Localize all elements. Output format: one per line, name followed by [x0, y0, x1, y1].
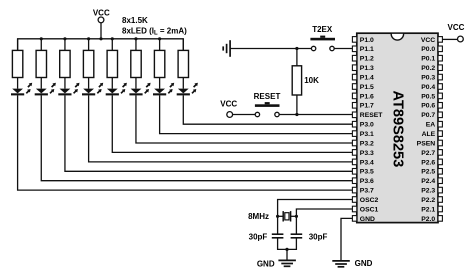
resistor R2 1.5K	[36, 50, 46, 77]
svg-text:PSEN: PSEN	[417, 140, 436, 147]
resistor R7 1.5K	[154, 50, 164, 77]
svg-text:OSC1: OSC1	[360, 206, 379, 213]
wire rail stub column 5	[111, 39, 113, 51]
pin 25 P2.4 (right)	[421, 178, 442, 185]
wire R8 to LED8	[182, 78, 184, 89]
switch S1 T2EX	[310, 25, 335, 51]
wire T2EX switch to pin P1.1	[334, 48, 352, 50]
svg-text:P3.6: P3.6	[360, 178, 374, 185]
svg-text:P0.6: P0.6	[421, 103, 435, 110]
switch S2 RESET	[254, 92, 281, 117]
svg-text:P3.7: P3.7	[360, 188, 374, 195]
LED D6	[129, 83, 150, 96]
capacitor C1 30pF	[249, 232, 284, 241]
svg-text:OSC2: OSC2	[360, 197, 379, 204]
crystal X1 8MHz	[248, 211, 296, 221]
svg-text:P2.1: P2.1	[421, 206, 435, 213]
wire LED3 to P3.5	[65, 95, 353, 171]
pin 2 P1.1 (left)	[352, 46, 374, 53]
power VCC (reset)	[220, 100, 237, 118]
wire rail stub column 2	[40, 39, 42, 51]
pin 38 P0.1 (right)	[421, 55, 442, 62]
wire VCC to rail	[100, 23, 102, 39]
ground (oscillator)	[257, 259, 296, 268]
pin 9 RESET (left)	[352, 112, 383, 119]
svg-text:P1.1: P1.1	[360, 46, 374, 53]
svg-text:P1.5: P1.5	[360, 84, 374, 91]
wire rail stub column 3	[64, 39, 66, 51]
svg-text:P0.1: P0.1	[421, 56, 435, 63]
wire OSC1 to crystal	[296, 209, 352, 216]
svg-text:P0.0: P0.0	[421, 46, 435, 53]
pin 15 P3.5 (left)	[352, 169, 374, 176]
wire LED1 to P3.7	[18, 95, 353, 190]
pin 11 P3.1 (left)	[352, 131, 374, 138]
LED D1	[11, 83, 32, 96]
svg-text:P3.0: P3.0	[360, 122, 374, 129]
wire LED4 to P3.4	[89, 95, 353, 161]
svg-text:P0.5: P0.5	[421, 93, 435, 100]
svg-text:ALE: ALE	[422, 131, 436, 138]
resistor R9 10K	[292, 66, 319, 95]
svg-text:GND: GND	[257, 259, 275, 268]
pin 32 P0.7 (right)	[421, 112, 442, 119]
pin 36 P0.3 (right)	[421, 74, 442, 81]
LED D5	[106, 83, 127, 96]
resistor R4 1.5K	[83, 50, 93, 77]
svg-text:P0.7: P0.7	[421, 112, 435, 119]
op-amp substitute: microcontroller U1 AT89S8253 body	[357, 33, 438, 222]
pin 29 PSEN (right)	[417, 140, 443, 147]
node ground junction	[285, 248, 288, 251]
svg-text:P1.7: P1.7	[360, 103, 374, 110]
svg-text:P3.4: P3.4	[360, 159, 374, 166]
wire rail stub column 6	[135, 39, 137, 51]
svg-text:GND: GND	[360, 216, 375, 223]
pin 22 P2.1 (right)	[421, 206, 442, 213]
wire OSC2 to crystal	[278, 200, 353, 217]
wire LED supply rail	[18, 39, 184, 51]
pin 17 P3.7 (left)	[352, 187, 374, 194]
wire R2 to LED2	[40, 78, 42, 89]
node crystal left junction	[276, 215, 279, 218]
wire R7 to LED7	[159, 78, 161, 89]
pin 12 P3.2 (left)	[352, 140, 374, 147]
wire VCC to RESET switch	[233, 114, 256, 116]
svg-text:30pF: 30pF	[309, 232, 328, 241]
svg-text:AT89S8253: AT89S8253	[389, 90, 405, 167]
svg-text:P3.5: P3.5	[360, 169, 374, 176]
svg-text:VCC: VCC	[220, 100, 237, 109]
LED D7	[153, 83, 174, 96]
svg-text:P2.2: P2.2	[421, 197, 435, 204]
node crystal right junction	[295, 215, 298, 218]
LED D8	[177, 83, 198, 96]
wire LED5 to P3.3	[112, 95, 352, 152]
wire rail stub column 7	[159, 39, 161, 51]
pin 28 P2.7 (right)	[421, 150, 442, 157]
svg-text:P2.3: P2.3	[421, 188, 435, 195]
svg-text:P1.0: P1.0	[360, 37, 374, 44]
pin 30 ALE (right)	[422, 131, 443, 138]
LED D2	[35, 83, 56, 96]
pin 1 P1.0 (left)	[352, 37, 374, 44]
svg-text:8x1.5K: 8x1.5K	[122, 16, 148, 25]
svg-text:P2.7: P2.7	[421, 150, 435, 157]
capacitor C2 30pF	[291, 232, 328, 241]
wire crystal to C1	[277, 216, 279, 233]
pin 23 P2.2 (right)	[421, 197, 442, 204]
U1 orientation notch	[391, 33, 403, 40]
svg-text:P0.4: P0.4	[421, 84, 435, 91]
wire crystal to C2	[295, 216, 297, 233]
pin 21 P2.0 (right)	[421, 216, 442, 223]
node RESET junction	[295, 113, 298, 116]
svg-text:T2EX: T2EX	[312, 25, 333, 34]
pin 14 P3.4 (left)	[352, 159, 374, 166]
wire R4 to LED4	[88, 78, 90, 89]
power VCC (chip supply)	[448, 23, 465, 42]
pin 13 P3.3 (left)	[352, 150, 374, 157]
svg-text:P1.6: P1.6	[360, 93, 374, 100]
wire rail stub column 4	[88, 39, 90, 51]
svg-text:8xLED (IL = 2mA): 8xLED (IL = 2mA)	[122, 26, 187, 36]
pin 4 P1.3 (left)	[352, 65, 374, 72]
wire ground to T2EX switch	[230, 48, 311, 50]
svg-text:P3.1: P3.1	[360, 131, 374, 138]
svg-text:EA: EA	[426, 122, 436, 129]
svg-text:P1.2: P1.2	[360, 56, 374, 63]
pin 34 P0.5 (right)	[421, 93, 442, 100]
pin 18 OSC2 (left)	[352, 197, 378, 204]
wire rail stub column 8	[182, 39, 184, 51]
node 10K top junction	[295, 47, 298, 50]
pin 33 P0.6 (right)	[421, 103, 442, 110]
svg-text:RESET: RESET	[254, 92, 281, 101]
wire capacitors to ground	[278, 239, 297, 250]
pin 40 VCC (right)	[421, 37, 443, 44]
wire R5 to LED5	[111, 78, 113, 89]
pin 6 P1.5 (left)	[352, 84, 374, 91]
resistor R8 1.5K	[178, 50, 188, 77]
wire VCC pin to supply	[442, 38, 457, 40]
pin 19 OSC1 (left)	[352, 206, 378, 213]
svg-text:P2.4: P2.4	[421, 178, 435, 185]
wire LED8 to P3.0	[183, 95, 352, 124]
svg-text:10K: 10K	[304, 76, 319, 85]
resistor R6 1.5K	[131, 50, 141, 77]
power VCC supply (LED rail)	[93, 9, 110, 23]
wire R9 to RESET net	[296, 95, 298, 115]
pin 24 P2.3 (right)	[421, 187, 442, 194]
svg-text:P2.5: P2.5	[421, 169, 435, 176]
ground (T2EX net, rotated)	[223, 40, 230, 57]
pin 5 P1.4 (left)	[352, 74, 374, 81]
svg-text:VCC: VCC	[421, 37, 435, 44]
svg-text:P1.3: P1.3	[360, 65, 374, 72]
wire R1 to LED1	[17, 78, 19, 89]
node rail junction dots	[40, 37, 162, 40]
wire R3 to LED3	[64, 78, 66, 89]
pin 16 P3.6 (left)	[352, 178, 374, 185]
wire LED2 to P3.6	[41, 95, 352, 180]
pin 8 P1.7 (left)	[352, 103, 374, 110]
pin 37 P0.2 (right)	[421, 65, 442, 72]
svg-text:P3.2: P3.2	[360, 140, 374, 147]
wire GND pin to ground	[341, 218, 352, 260]
svg-text:P1.4: P1.4	[360, 75, 374, 82]
wire rail stub column 1	[17, 39, 19, 51]
LED D4	[82, 83, 103, 96]
svg-text:30pF: 30pF	[249, 232, 268, 241]
LED D3	[58, 83, 79, 96]
ground (chip)	[332, 259, 372, 268]
wire RESET switch to RESET pin	[279, 114, 352, 116]
wire R6 to LED6	[135, 78, 137, 89]
svg-text:P0.3: P0.3	[421, 75, 435, 82]
wire LED7 to P3.1	[160, 95, 353, 133]
svg-text:RESET: RESET	[360, 112, 384, 119]
pin 35 P0.4 (right)	[421, 84, 442, 91]
pin 3 P1.2 (left)	[352, 55, 374, 62]
resistor R1 1.5K	[12, 50, 22, 77]
svg-text:8MHz: 8MHz	[248, 212, 269, 221]
svg-text:VCC: VCC	[93, 9, 110, 18]
svg-text:P3.3: P3.3	[360, 150, 374, 157]
wire junction to ground	[286, 249, 288, 260]
svg-text:VCC: VCC	[448, 23, 465, 32]
svg-text:P2.6: P2.6	[421, 159, 435, 166]
pin 39 P0.0 (right)	[421, 46, 442, 53]
resistor R5 1.5K	[107, 50, 117, 77]
pin 31 EA (right)	[426, 121, 443, 128]
pin 7 P1.6 (left)	[352, 93, 374, 100]
svg-text:P2.0: P2.0	[421, 216, 435, 223]
pin 20 GND (left)	[352, 216, 375, 223]
pin 26 P2.5 (right)	[421, 169, 442, 176]
wire T2EX node to R9	[296, 49, 298, 66]
svg-text:GND: GND	[355, 259, 373, 268]
wire LED6 to P3.2	[136, 95, 353, 143]
pin 27 P2.6 (right)	[421, 159, 442, 166]
svg-text:P0.2: P0.2	[421, 65, 435, 72]
resistor R3 1.5K	[60, 50, 70, 77]
pin 10 P3.0 (left)	[352, 121, 374, 128]
